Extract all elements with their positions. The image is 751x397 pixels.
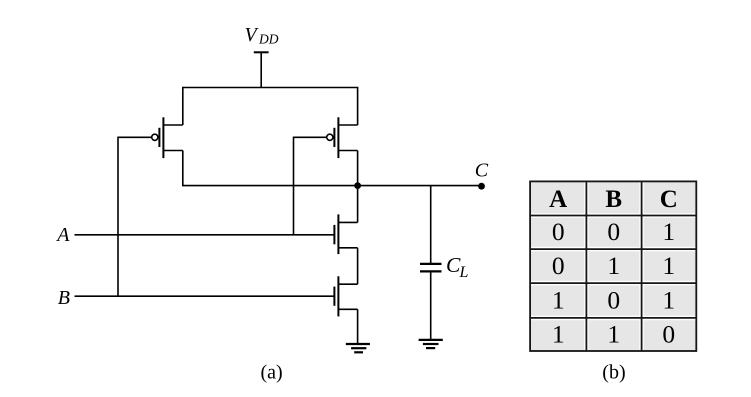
- svg-text:B: B: [605, 186, 622, 213]
- svg-text:B: B: [58, 287, 70, 309]
- nmos M4 (gate B): [334, 276, 357, 316]
- svg-text:V: V: [245, 24, 260, 46]
- svg-text:0: 0: [552, 251, 565, 280]
- wire input A: [75, 234, 335, 236]
- svg-text:1: 1: [662, 285, 675, 314]
- svg-text:1: 1: [662, 217, 675, 246]
- wire A riser to M2 gate: [293, 137, 295, 235]
- svg-text:0: 0: [552, 217, 565, 246]
- capacitor CL value label: [446, 253, 469, 281]
- svg-text:0: 0: [662, 320, 675, 349]
- node B label: [58, 287, 70, 309]
- truth table header C: [660, 186, 678, 213]
- node A label: [55, 224, 70, 246]
- svg-text:A: A: [55, 224, 70, 246]
- supply VDD tick: [254, 51, 269, 53]
- supply VDD label: [245, 24, 279, 47]
- svg-text:(b): (b): [602, 362, 625, 384]
- svg-text:C: C: [660, 186, 678, 213]
- capacitor CL: [420, 264, 442, 272]
- svg-text:DD: DD: [258, 32, 279, 47]
- wire M4 source to ground: [357, 309, 359, 344]
- svg-text:L: L: [459, 264, 469, 281]
- svg-text:(a): (a): [261, 362, 283, 384]
- wire VDD tick to rail: [260, 52, 262, 88]
- truth table row 1: [552, 217, 675, 246]
- svg-text:0: 0: [607, 285, 620, 314]
- wire M3 source to M4 drain: [357, 248, 359, 284]
- wire rail to M1 drain: [182, 87, 184, 125]
- wire output rail to CL: [430, 186, 432, 264]
- wire M2 source to output node: [357, 151, 359, 186]
- truth table row 3: [552, 285, 675, 314]
- caption (a): [261, 362, 283, 384]
- svg-text:1: 1: [607, 320, 620, 349]
- svg-text:A: A: [549, 186, 567, 213]
- wire input B: [75, 295, 335, 297]
- truth table row 4: [552, 320, 675, 349]
- pmos M2 (gate A): [327, 117, 358, 158]
- truth table grid: [530, 181, 696, 351]
- truth table row 2: [552, 251, 675, 280]
- wire CL to ground: [430, 271, 432, 340]
- pmos M1 (gate B): [152, 117, 183, 158]
- nmos M3 (gate A): [334, 214, 357, 254]
- truth table header A: [549, 186, 567, 213]
- caption (b): [602, 362, 625, 384]
- svg-text:1: 1: [662, 251, 675, 280]
- truth table header B: [605, 186, 622, 213]
- svg-text:1: 1: [552, 285, 565, 314]
- truth table background: [530, 181, 696, 351]
- svg-text:C: C: [475, 159, 489, 181]
- wire output node to M3 drain: [357, 186, 359, 223]
- wire M1 gate stub: [118, 136, 152, 138]
- wire output rail to C: [183, 185, 482, 187]
- ground (under CL): [419, 340, 443, 348]
- svg-text:0: 0: [607, 217, 620, 246]
- svg-text:1: 1: [552, 320, 565, 349]
- svg-text:1: 1: [607, 251, 620, 280]
- wire VDD rail: [183, 87, 358, 89]
- wire M2 gate stub: [294, 136, 327, 138]
- wire M1 source to output rail: [182, 151, 184, 187]
- ground (under M4): [346, 344, 370, 352]
- junction output node: [354, 182, 361, 189]
- node C terminal dot: [478, 183, 485, 190]
- wire B riser to M1 gate: [117, 137, 119, 297]
- node C label: [475, 159, 489, 181]
- wire rail to M2 drain: [357, 87, 359, 125]
